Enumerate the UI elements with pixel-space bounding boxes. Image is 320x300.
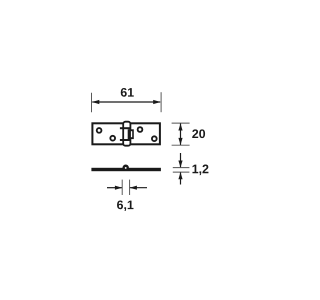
dim 1,2 dimension line upper — [180, 153, 182, 167]
dim 6,1 extension line left — [121, 180, 123, 195]
dim 61 extension line right — [160, 92, 162, 112]
dim 1,2 extension line bottom — [173, 171, 190, 173]
dim 20 arrowhead up — [178, 124, 182, 131]
screw hole top-right — [138, 127, 143, 132]
screw hole top-left — [97, 128, 102, 133]
knuckle cut line lower — [120, 139, 131, 141]
hinge leaf rectangle (front view 61x20) — [92, 123, 159, 144]
side view knuckle roll — [122, 165, 129, 172]
dim 6,1 extension line right — [129, 180, 131, 195]
dim 1,2 extension line top — [173, 167, 190, 169]
knuckle middle segment — [128, 129, 134, 139]
dim 20 arrowhead down — [178, 138, 182, 145]
side view pin hole — [125, 167, 127, 169]
dim 6,1 arrowhead right-pointing — [115, 186, 122, 190]
side view plate bar — [91, 168, 160, 171]
dim 61 dimension line — [92, 101, 160, 103]
dim 61 label — [121, 88, 134, 97]
dim 61 arrowhead left — [92, 100, 99, 104]
dim 6,1 dimension line right — [130, 187, 147, 189]
dim 20 dimension line — [180, 124, 182, 145]
knuckle capsule — [123, 122, 130, 146]
dim 20 extension line bottom — [172, 144, 190, 146]
dim 1,2 dimension line lower — [180, 173, 182, 185]
knuckle cut line upper — [120, 127, 131, 129]
dim 61 arrowhead right — [153, 100, 160, 104]
dim 20 label — [192, 129, 205, 138]
dim 1,2 arrowhead down — [178, 161, 182, 168]
dim 6,1 dimension line left — [107, 187, 122, 189]
dim 6,1 arrowhead left-pointing — [130, 186, 137, 190]
dim 20 extension line top — [172, 122, 190, 124]
dim 6,1 label — [117, 200, 133, 211]
screw hole bottom-right — [152, 136, 157, 141]
dim 61 extension line left — [91, 93, 93, 113]
screw hole bottom-left — [110, 136, 115, 141]
dim 1,2 label — [192, 165, 208, 176]
dim 1,2 arrowhead up — [178, 172, 182, 179]
